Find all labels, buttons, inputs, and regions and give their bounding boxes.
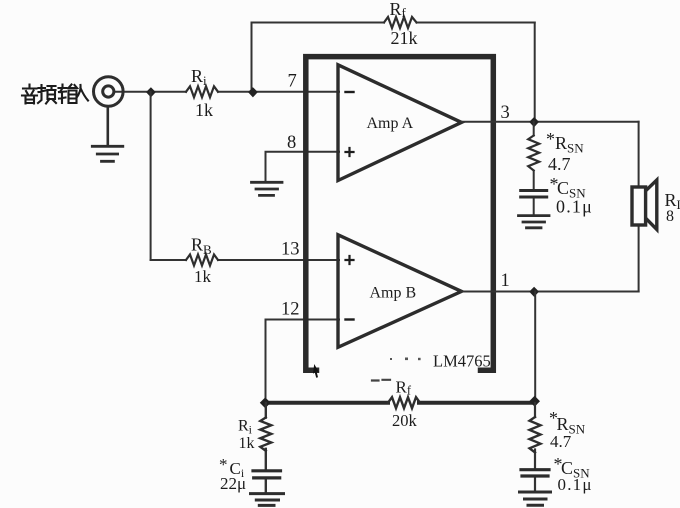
ground (lower CSN) [520, 492, 551, 505]
svg-text:21k: 21k [391, 28, 418, 48]
svg-text:*: * [219, 455, 228, 474]
svg-text:0.1μ: 0.1μ [558, 475, 593, 494]
label *CSN upper [550, 174, 587, 201]
svg-text:3: 3 [501, 103, 510, 123]
label 1k bottom [239, 435, 255, 452]
ground (input connector) [92, 146, 123, 161]
wire: pin 8 to ground [266, 152, 340, 181]
ground (Ci) [251, 494, 284, 506]
label 4.7 upper [548, 154, 571, 174]
resistor Ri (1k) bottom [260, 418, 271, 451]
op-amp A minus input mark [346, 91, 354, 93]
speaker RL [632, 180, 657, 230]
svg-text:1k: 1k [195, 100, 213, 120]
wire: input row pin 7 [114, 91, 339, 93]
输 [59, 85, 78, 104]
node: input junction [146, 87, 156, 97]
label RB [191, 235, 212, 258]
label *CSN lower [554, 454, 591, 481]
input cap branch: wire [265, 403, 267, 492]
connector J (audio input) [94, 77, 124, 145]
wire: speaker bottom to pin 1 row [638, 226, 640, 292]
resistor RSN (4.7) upper [528, 136, 539, 171]
op-amp A plus input mark [346, 148, 354, 156]
label 22u [220, 474, 246, 493]
wire: bottom feedback thick row (Rf 20k) [265, 401, 535, 405]
svg-text:1k: 1k [194, 267, 212, 286]
label 1k RB [194, 267, 212, 286]
snubber branch A: wire [533, 122, 535, 215]
capacitor CSN (0.1u) upper [521, 191, 547, 198]
wire: feedback left vertical [251, 23, 253, 93]
resistor RSN (4.7) lower [530, 417, 541, 453]
svg-text:8: 8 [666, 208, 674, 225]
svg-text:RB: RB [191, 235, 212, 258]
node: pin 3 junction [529, 117, 539, 127]
mouse cursor artifact [313, 364, 319, 378]
svg-text:Ri: Ri [191, 66, 207, 88]
pin 13 [281, 240, 300, 260]
svg-text:Rf: Rf [390, 0, 407, 20]
label 21k [391, 28, 418, 48]
ground (upper CSN) [519, 216, 550, 228]
pin 1 [501, 271, 510, 291]
label *RSN lower [549, 408, 586, 437]
pin 3 [501, 103, 510, 123]
label Ri top [191, 66, 207, 88]
wire: vertical from input junction down to RB row [150, 92, 152, 260]
op-amp U1 Amp A [338, 65, 462, 181]
label *Ci [219, 455, 245, 480]
label Rf bottom [396, 378, 412, 398]
label Ri bottom [238, 418, 253, 437]
频 [38, 85, 56, 104]
svg-text:20k: 20k [392, 411, 418, 430]
op-amp U2 Amp B [338, 235, 462, 347]
入 [76, 85, 88, 101]
svg-text:4.7: 4.7 [550, 432, 572, 451]
label 0.1u upper [556, 197, 593, 217]
resistor RB (1k) [186, 255, 218, 266]
capacitor CSN (0.1u) lower [521, 470, 549, 476]
wire: RB row pin 13 [151, 259, 339, 261]
label Amp B [370, 285, 417, 302]
svg-text:Rf: Rf [396, 378, 412, 398]
node: snubber B junction [529, 396, 540, 407]
wire: feedback right vertical down to pin 3 [534, 23, 536, 122]
svg-text:0.1μ: 0.1μ [556, 197, 593, 217]
snubber branch B: wire [534, 403, 536, 491]
capacitor Ci (22u) [253, 471, 281, 478]
label 4.7 lower [550, 432, 572, 451]
resistor Rf (21k) [384, 17, 417, 28]
wire: right vertical to speaker top [638, 122, 640, 186]
svg-text:Amp A: Amp A [367, 115, 414, 132]
svg-text:22μ: 22μ [220, 474, 246, 493]
wire: pin 12 row [266, 320, 340, 403]
音 [22, 85, 37, 104]
svg-text:12: 12 [281, 300, 300, 320]
label 1k top [195, 100, 213, 120]
label *RSN upper [546, 129, 584, 156]
pin 8 [287, 133, 296, 153]
node: feedback B junction [260, 397, 271, 408]
op-amp B minus input mark [346, 318, 354, 320]
svg-text:Amp B: Amp B [370, 285, 417, 302]
svg-text:LM4765: LM4765 [433, 352, 491, 371]
svg-text:*: * [546, 129, 555, 149]
wire: top feedback horizontal (Rf 21k row) [252, 22, 535, 24]
svg-text:1k: 1k [239, 435, 255, 452]
wire: pin 1 output row [462, 291, 639, 293]
svg-text:1: 1 [501, 271, 510, 291]
pin 7 [288, 72, 297, 92]
svg-text:RSN: RSN [555, 133, 584, 156]
svg-text:4.7: 4.7 [548, 154, 571, 174]
label LM4765 [433, 352, 491, 371]
label 8 ohm [666, 208, 674, 225]
ground (pin 8) [252, 182, 283, 195]
op-amp B plus input mark [346, 256, 354, 264]
wire: pin 3 output row [462, 121, 639, 123]
resistor Rf (20k) [388, 397, 419, 408]
svg-text:13: 13 [281, 240, 300, 260]
label Rf top [390, 0, 407, 20]
label: Chinese "audio input" drawn as strokes [22, 85, 88, 104]
label RL [665, 190, 680, 212]
node: pin7/feedback junction [248, 87, 258, 97]
wire: pin1 junction down to bottom feedback row [534, 292, 536, 402]
IC LM4765 box outline [306, 57, 494, 371]
label Amp A [367, 115, 414, 132]
svg-text:8: 8 [287, 133, 296, 153]
resistor Ri (1k) [186, 86, 218, 97]
node: pin 1 junction [529, 287, 539, 297]
label 20k [392, 411, 418, 430]
pin 12 [281, 300, 300, 320]
label 0.1u lower [558, 475, 593, 494]
svg-text:7: 7 [288, 72, 297, 92]
speck artifacts near 20k label and LM4765 [372, 379, 390, 382]
svg-text:Ri: Ri [238, 418, 253, 437]
